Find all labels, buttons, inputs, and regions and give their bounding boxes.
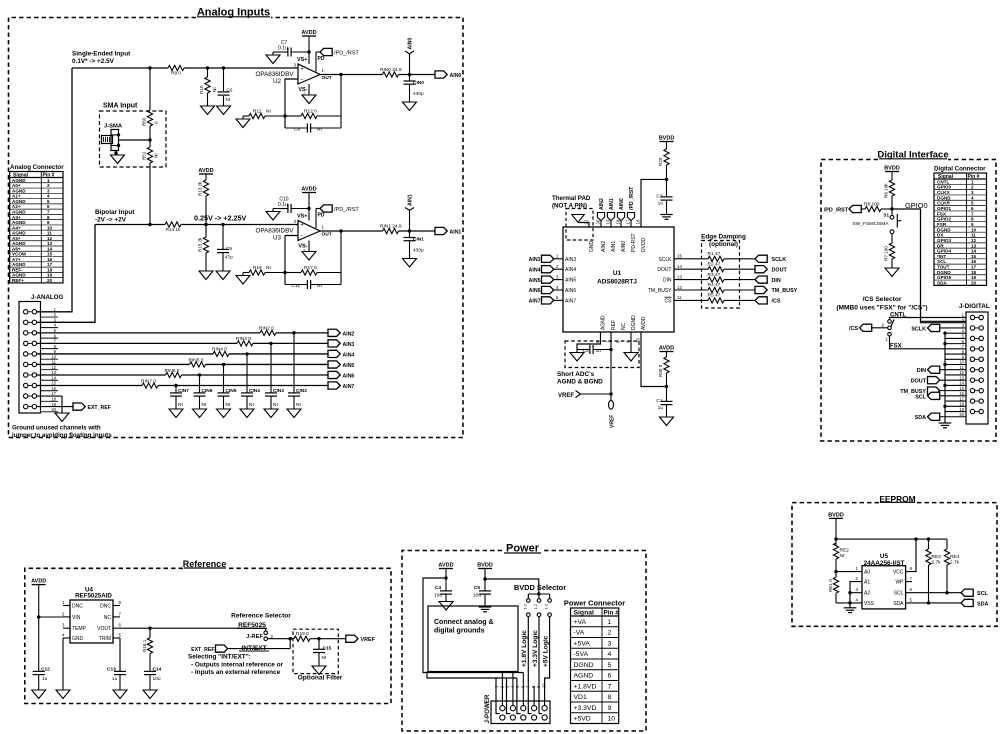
capacitor C5 10u (473, 585, 491, 607)
svg-text:DVDD: DVDD (641, 237, 647, 252)
net flag SDA eeprom (961, 599, 988, 607)
junction CIN5 node (222, 363, 225, 366)
U1 bottom pin 6 AGND (595, 315, 606, 343)
svg-text:VREF: VREF (610, 415, 616, 428)
svg-text:FSR: FSR (937, 222, 947, 227)
U4 right pin 6 VOUT (97, 623, 121, 633)
svg-text:12: 12 (971, 238, 977, 243)
svg-text:A6+: A6+ (12, 246, 21, 251)
wire selector rail (528, 593, 549, 595)
svg-text:+: + (301, 66, 304, 72)
svg-text:/CS: /CS (772, 299, 781, 305)
svg-text:20: 20 (47, 278, 53, 283)
svg-text:A7+: A7+ (12, 257, 21, 262)
thermal pad dashed box (566, 209, 593, 241)
capacitor C10 0.1u (273, 197, 309, 214)
svg-text:A3+: A3+ (12, 215, 21, 220)
wire AIN6 row (37, 374, 328, 376)
capacitor C3 1u (656, 179, 672, 214)
svg-text:VD1: VD1 (574, 694, 587, 701)
net flag SCL to J-DIGITAL (915, 392, 966, 400)
svg-text:R30 0: R30 0 (658, 364, 663, 377)
label INT/EXT (239, 645, 269, 652)
ground at J-ANALOG (55, 413, 69, 422)
ground at R10 (201, 106, 215, 115)
svg-text:NI: NI (202, 402, 207, 408)
resistor R18 1 (142, 628, 153, 671)
svg-text:Single-Ended Input: Single-Ended Input (72, 51, 131, 58)
port tag /CS (755, 297, 781, 305)
resistor R11 NI (243, 109, 285, 119)
wire R4 to tag (724, 289, 755, 291)
ground at R11 (236, 116, 250, 128)
ground at R15 (199, 271, 213, 280)
svg-text:10: 10 (636, 338, 641, 343)
resistor R15 2k (198, 225, 209, 272)
U4 right pin 8 DNC (100, 600, 121, 610)
junction VREF node (609, 392, 612, 395)
svg-text:NI: NI (249, 402, 254, 408)
svg-text:VIN: VIN (72, 615, 81, 621)
junction CIN4 node (245, 352, 248, 355)
svg-text:EXT_REF: EXT_REF (191, 647, 214, 653)
wire CNTL pin1 (890, 318, 967, 319)
input tag AIN6 at U1 pin 4 (529, 285, 577, 294)
wire VCC pin8 (906, 537, 918, 571)
svg-text:A5+: A5+ (12, 236, 21, 241)
svg-text:SDA: SDA (937, 281, 947, 286)
svg-text:/PD_/RST: /PD_/RST (334, 207, 359, 213)
capacitor C15 NI (313, 639, 332, 666)
svg-text:9: 9 (608, 705, 612, 712)
svg-text:2: 2 (271, 634, 274, 639)
wire R2 to tag (724, 268, 755, 270)
op-amp U2 (255, 57, 331, 93)
junction SMA branch (148, 66, 151, 69)
svg-text:10: 10 (971, 227, 977, 232)
svg-text:NI: NI (212, 87, 217, 92)
label Reference Selector (231, 613, 291, 620)
label +5V Logic (542, 635, 549, 667)
svg-text:AIN3: AIN3 (343, 342, 355, 348)
svg-text:AIN0: AIN0 (621, 241, 627, 252)
resistor R17 0 (285, 265, 341, 275)
svg-text:AIN5: AIN5 (565, 278, 576, 284)
svg-text:2.7k: 2.7k (950, 560, 960, 566)
svg-text:CIN1: CIN1 (413, 237, 424, 243)
wire single-ended input (72, 67, 168, 69)
svg-text:OPA836IDBV: OPA836IDBV (255, 228, 294, 235)
AVDD supply at R30 (659, 346, 674, 358)
wire SCL (906, 592, 961, 594)
svg-text:WP: WP (895, 580, 904, 586)
svg-text:AIN0: AIN0 (408, 38, 414, 50)
ground at CIN3 (264, 409, 278, 418)
junction C9 node (221, 223, 224, 226)
svg-text:R15 2k: R15 2k (198, 237, 203, 252)
svg-text:10: 10 (51, 354, 56, 359)
svg-text:1-2: 1-2 (522, 603, 527, 610)
wire RIN0 to AIN0 (399, 74, 436, 76)
resistor R19 0 (294, 631, 310, 641)
wire U3 fb right vertical (340, 231, 342, 285)
capacitor CIN5 NI (218, 364, 237, 409)
port tag DOUT (755, 266, 787, 274)
resistor R12 0 (285, 109, 341, 119)
U1 bottom pin 7 REF (606, 320, 617, 343)
ground at CIN2 (287, 409, 301, 418)
svg-text:PD: PD (318, 213, 325, 219)
resistor RIN1 24.9 (380, 224, 402, 234)
port tag DIN (755, 276, 781, 284)
connector J-ANALOG (19, 302, 58, 414)
svg-text:AIN3: AIN3 (565, 257, 576, 263)
svg-text:DOUT: DOUT (772, 267, 788, 273)
svg-text:14: 14 (47, 246, 53, 251)
svg-text:SCL: SCL (915, 394, 926, 400)
label J-DIGITAL (959, 303, 990, 310)
svg-text:U1: U1 (613, 270, 622, 277)
U4 right pin 5 TRIM (99, 633, 122, 643)
svg-text:9: 9 (971, 222, 974, 227)
svg-text:NI: NI (273, 402, 278, 408)
svg-text:CIN4: CIN4 (249, 388, 260, 394)
svg-text:12: 12 (47, 236, 53, 241)
wire AVDD to VIN (39, 616, 63, 618)
input tag AIN5 at U1 pin 3 (529, 274, 577, 283)
svg-text:3: 3 (971, 190, 974, 195)
input tag AIN7 at U1 pin 5 (529, 295, 577, 304)
wire J-ANALOG pin4 riser (37, 225, 95, 323)
svg-text:AIN6: AIN6 (565, 288, 576, 294)
svg-text:DOUT: DOUT (911, 379, 927, 385)
net flag AIN0 above U1 (617, 198, 625, 227)
svg-text:SCLK: SCLK (658, 257, 672, 263)
svg-text:VS+: VS+ (297, 214, 308, 220)
capacitor C14 10u (144, 666, 162, 690)
svg-text:6: 6 (971, 206, 974, 211)
svg-text:J-SMA: J-SMA (104, 124, 123, 130)
ground at R7 (885, 268, 899, 277)
svg-text:14: 14 (51, 375, 56, 380)
svg-text:+1.8V Logic: +1.8V Logic (521, 630, 528, 667)
capacitor CIN3 NI (265, 343, 284, 409)
capacitor C9 47p (217, 225, 233, 272)
optional filter dashed box (293, 629, 343, 681)
ground at C13 (113, 690, 127, 699)
svg-text:AVDD: AVDD (641, 316, 647, 330)
wire GPIO0 to pin2 (921, 209, 967, 323)
wire VSS (836, 602, 862, 604)
net flag AIN1 vertical (405, 194, 414, 231)
svg-text:NI: NI (317, 126, 322, 132)
svg-text:NI: NI (226, 402, 231, 408)
ground at C3 (660, 215, 673, 220)
svg-text:REF+: REF+ (12, 278, 24, 283)
svg-text:CLKR: CLKR (937, 201, 950, 206)
svg-text:GPIO4: GPIO4 (937, 249, 951, 254)
svg-text:+: + (301, 223, 304, 229)
IC U4 REF5025AID body (70, 587, 113, 644)
svg-text:Optional Filter: Optional Filter (298, 675, 343, 682)
wire AIN3 row (37, 342, 328, 344)
svg-text:R13 2k: R13 2k (198, 181, 203, 196)
svg-text:17: 17 (971, 265, 977, 270)
resistor R8 100 (864, 202, 881, 212)
svg-text:CIN3: CIN3 (273, 388, 284, 394)
capacitor CIN2 NI (288, 333, 307, 409)
svg-text:NC: NC (621, 322, 627, 330)
svg-text:1u: 1u (658, 201, 664, 207)
svg-text:AIN7: AIN7 (565, 298, 576, 304)
BVDD supply at R20 (659, 136, 675, 150)
net flag AIN0 vertical (405, 38, 414, 75)
U5 left pin 2 A1 (856, 576, 871, 586)
U1 right pin 12 TM_BUSY (648, 285, 708, 294)
svg-text:15: 15 (971, 254, 977, 259)
wire A1 A2 (848, 582, 862, 603)
U5 right pin 5 SDA (893, 597, 912, 607)
port tag TM_BUSY (755, 286, 798, 294)
wire rect ground feed (427, 672, 517, 679)
port tag AIN5 (328, 361, 354, 369)
svg-text:NI: NI (840, 553, 845, 559)
wire AIN2 row (37, 332, 328, 334)
junction BVDD rail eeprom (834, 537, 837, 540)
svg-text:1: 1 (971, 179, 974, 184)
resistor RIN0 24.9 (380, 67, 402, 77)
svg-text:CIN7: CIN7 (178, 388, 189, 394)
AVDD supply U2 (301, 30, 316, 64)
wire SDA (906, 602, 961, 604)
svg-text:AVDD: AVDD (659, 346, 674, 352)
svg-text:10u: 10u (153, 676, 161, 682)
svg-text:A2+: A2+ (12, 204, 21, 209)
svg-text:A4+: A4+ (12, 225, 21, 230)
U4 left pin 1 DNC (62, 600, 83, 610)
svg-text:AVDD: AVDD (438, 563, 453, 569)
wire R8 to GPIO0 (881, 208, 892, 210)
svg-text:digital grounds: digital grounds (434, 628, 485, 635)
capacitor C2 1u (577, 345, 611, 354)
ground at thermal pad (572, 215, 585, 223)
junction C15 node (317, 637, 320, 640)
svg-text:PD: PD (318, 56, 325, 62)
svg-text:-5VA: -5VA (574, 651, 589, 658)
label FSX (890, 344, 902, 350)
svg-text:10u: 10u (473, 593, 481, 599)
svg-text:AIN5: AIN5 (343, 363, 355, 369)
svg-text:TRIM: TRIM (99, 636, 111, 642)
svg-text:AGND: AGND (12, 241, 26, 246)
junction C5 node (483, 577, 486, 580)
resistor RE4 2.7k (944, 539, 959, 593)
svg-text:AIN6: AIN6 (529, 288, 541, 294)
svg-text:DGND: DGND (937, 270, 951, 275)
port tag AIN0 (435, 71, 461, 79)
svg-text:C8: C8 (294, 126, 300, 132)
svg-text:CS: CS (665, 298, 673, 304)
svg-text:1u: 1u (658, 405, 664, 411)
AVDD supply power (438, 563, 453, 591)
svg-text:10: 10 (47, 225, 53, 230)
svg-text:VREF: VREF (361, 637, 376, 643)
svg-text:AVDD: AVDD (301, 187, 316, 193)
svg-text:AGND: AGND (12, 209, 26, 214)
wire R5 to tag (724, 299, 755, 301)
svg-text:10: 10 (541, 683, 546, 688)
svg-text:NI: NI (154, 153, 159, 158)
svg-text:24AA256-I/ST: 24AA256-I/ST (864, 560, 905, 567)
svg-text:R5 47: R5 47 (708, 293, 721, 299)
resistor RIN6 0 (165, 368, 182, 378)
svg-text:R2 47: R2 47 (708, 261, 721, 267)
port tag AIN4 (328, 350, 354, 358)
U1 top pin 18 AIN0 (616, 219, 627, 252)
svg-text:8: 8 (608, 694, 612, 701)
svg-text:47p: 47p (225, 255, 233, 260)
svg-text:AIN2: AIN2 (343, 331, 355, 337)
label Single-Ended Input (72, 51, 131, 66)
section box Digital Interface (821, 150, 996, 442)
svg-text:-VA: -VA (574, 630, 585, 637)
svg-text:DNC: DNC (100, 604, 111, 610)
svg-text:C11: C11 (292, 283, 301, 289)
SMA dashed box (100, 111, 167, 167)
net flag DIN to J-DIGITAL (917, 366, 966, 374)
wire REF pin7 (610, 332, 612, 400)
wire AIN5 row (37, 363, 328, 365)
svg-text:2: 2 (47, 183, 50, 188)
svg-text:0.1u: 0.1u (278, 202, 288, 208)
svg-text:4: 4 (971, 195, 974, 200)
svg-text:RE4: RE4 (950, 554, 960, 560)
svg-text:REF: REF (611, 320, 617, 330)
label +3.3V Logic (532, 630, 539, 667)
svg-text:BVDD: BVDD (884, 166, 900, 172)
net flag SCLK to J-DIGITAL (911, 324, 966, 332)
svg-text:1-2: 1-2 (533, 603, 538, 610)
ground at CIN6 (193, 409, 207, 418)
svg-text:C4: C4 (435, 585, 441, 591)
svg-text:AIN5: AIN5 (529, 278, 541, 284)
wire U4 GND (62, 638, 64, 690)
port tag AIN3 (328, 340, 354, 348)
junction selector rail (537, 592, 540, 595)
ground at C7 (266, 55, 280, 64)
ground at J-DIGITAL (939, 423, 952, 428)
svg-text:BVDD Selector: BVDD Selector (514, 583, 566, 592)
svg-text:AIN0: AIN0 (619, 198, 625, 210)
svg-text:14: 14 (959, 381, 964, 386)
svg-text:FSX: FSX (937, 211, 947, 216)
svg-text:Short ADC's: Short ADC's (557, 371, 595, 378)
svg-text:J-ANALOG: J-ANALOG (31, 294, 63, 301)
svg-text:Edge Damping: Edge Damping (701, 234, 746, 241)
wires J-POWER odd pins (502, 673, 534, 706)
junction RE3 SDA (927, 601, 930, 604)
svg-text:AGND: AGND (574, 673, 594, 680)
resistor RIN7 0 (141, 378, 158, 388)
svg-text:C12: C12 (41, 666, 50, 672)
resistor R13 2k (198, 180, 209, 225)
svg-text:3: 3 (608, 640, 612, 647)
svg-text:RIN2 0: RIN2 0 (259, 326, 274, 332)
svg-text:5: 5 (608, 662, 612, 669)
resistor R2 47 (708, 261, 725, 271)
wire WP stub (906, 581, 912, 583)
svg-text:C13: C13 (107, 666, 116, 672)
switch CS selector (882, 320, 894, 342)
wire FSX pin7 (890, 336, 967, 349)
svg-text:R51: R51 (142, 151, 147, 160)
resistor R7 100 (884, 234, 895, 268)
junction CIN6 node (198, 373, 201, 376)
ground arrow at C4 (439, 602, 453, 611)
svg-text:DR: DR (937, 243, 944, 248)
svg-text:SW_FSM4JSMA: SW_FSM4JSMA (853, 221, 890, 227)
svg-text:10u: 10u (434, 593, 442, 599)
ground at CIN5 (217, 409, 231, 418)
svg-text:A0: A0 (864, 570, 870, 576)
AVDD supply R13 (198, 168, 213, 180)
svg-text:TM_BUSY: TM_BUSY (648, 288, 672, 294)
net flag /PD_/RST above U1 (627, 186, 635, 227)
svg-text:-2V -> +2V: -2V -> +2V (95, 217, 127, 224)
port tag AIN7 (328, 382, 354, 390)
U5 left pin 3 A2 (856, 587, 871, 597)
svg-text:RIN7 0: RIN7 0 (141, 378, 156, 384)
svg-text:13: 13 (677, 274, 682, 279)
svg-text:AGND: AGND (12, 273, 26, 278)
svg-text:- Inputs an external reference: - Inputs an external reference (191, 669, 281, 676)
svg-text:Bipolar Input: Bipolar Input (95, 209, 135, 216)
svg-text:R20: R20 (658, 157, 663, 166)
net flag /PD_/RST digital (824, 205, 865, 213)
svg-text:20: 20 (51, 407, 56, 412)
svg-text:Connect analog &: Connect analog & (434, 619, 494, 626)
svg-text:R18 1: R18 1 (142, 639, 147, 652)
svg-text:2: 2 (608, 630, 612, 637)
svg-text:AVDD: AVDD (301, 30, 316, 36)
svg-text:*INT: *INT (937, 254, 946, 259)
svg-text:Ground unused channels with: Ground unused channels with (12, 425, 101, 432)
svg-text:jumper to avoiding floating in: jumper to avoiding floating inputs (11, 432, 112, 439)
svg-text:GND: GND (589, 241, 595, 253)
svg-text:REF-: REF- (12, 267, 23, 272)
junction R10 node (206, 66, 209, 69)
svg-text:AGND: AGND (12, 231, 26, 236)
U5 left pin 1 A0 (856, 566, 871, 576)
svg-text:DGND: DGND (574, 662, 594, 669)
svg-text:RE1 0: RE1 0 (828, 579, 833, 592)
junction U2 feedback node (339, 73, 342, 76)
svg-text:R6 10k: R6 10k (884, 183, 889, 198)
net flag /PD_/RST at U3 (316, 205, 359, 213)
svg-text:DIN: DIN (663, 278, 672, 284)
ground at C14 (143, 690, 157, 699)
wire R3 to tag (724, 279, 755, 281)
svg-text:AIN1: AIN1 (609, 198, 615, 210)
table Power Connector (564, 599, 625, 724)
svg-text:+5VD: +5VD (574, 716, 591, 723)
svg-text:R11: R11 (253, 109, 262, 115)
edge damping dashed box (701, 234, 746, 309)
capacitor C4 10u (434, 585, 452, 602)
svg-text:+3.3VD: +3.3VD (574, 705, 597, 712)
svg-text:C6: C6 (227, 88, 233, 93)
label GPIO0 (905, 201, 928, 210)
